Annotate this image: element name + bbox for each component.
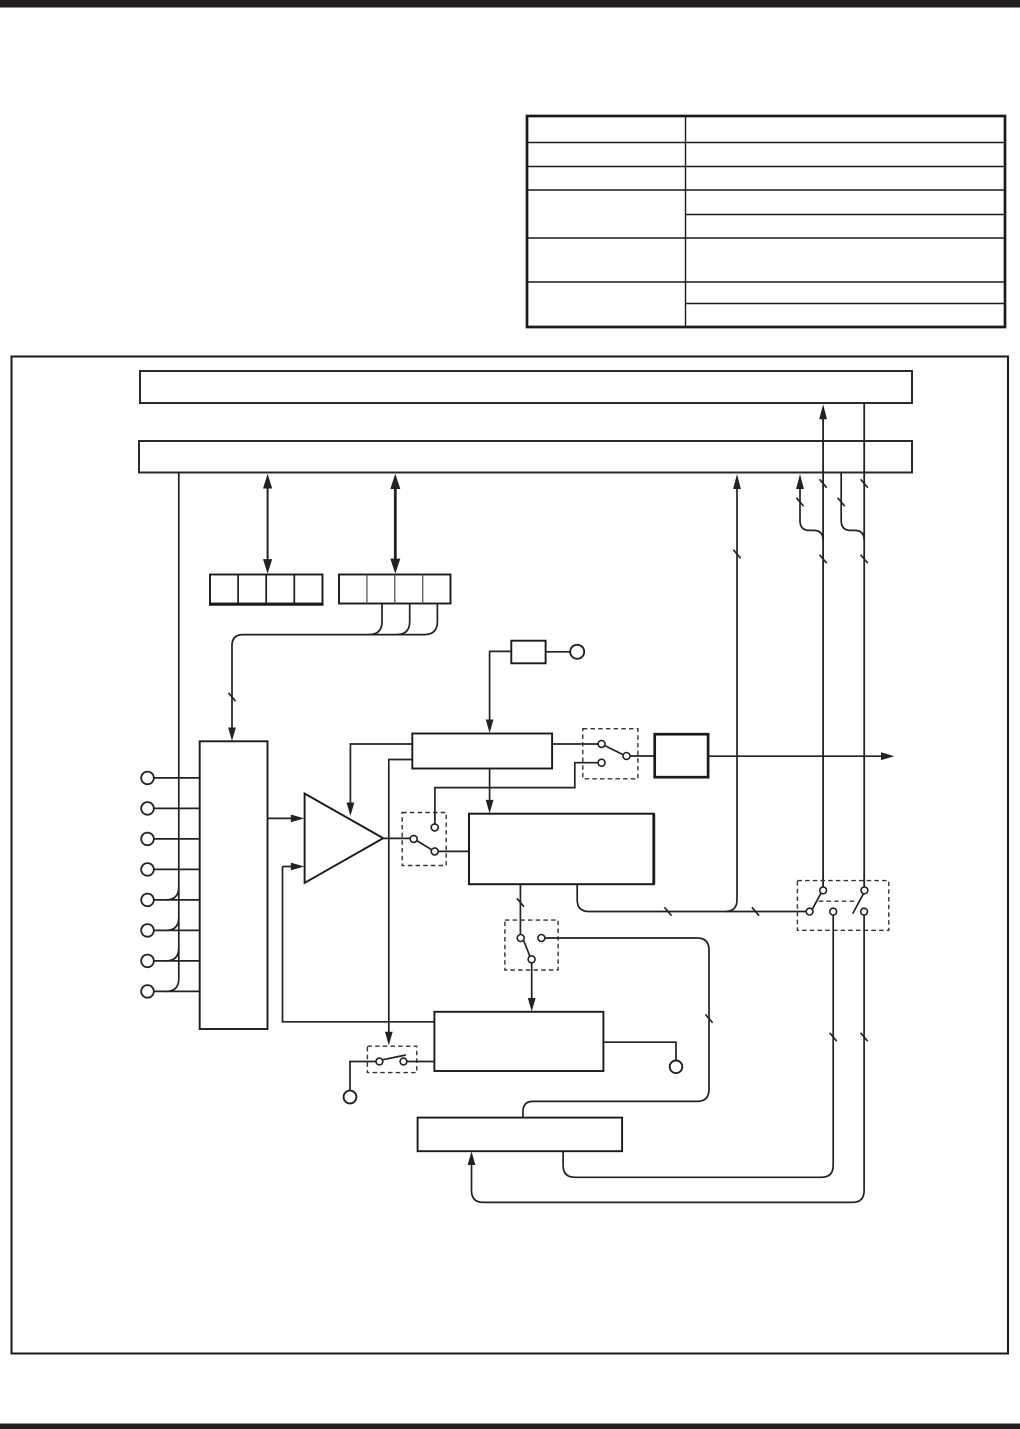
dual switch contacts <box>806 887 868 915</box>
wire: switch to solid box <box>630 755 655 757</box>
dual switch right arm <box>853 894 864 914</box>
register A (left, 4 cells) <box>209 575 324 605</box>
slash mark on mux select bus <box>228 693 235 701</box>
wire: input row 5 <box>154 899 200 901</box>
wire: comparator output to left switch <box>383 837 410 839</box>
dual switch left arm <box>812 894 821 910</box>
wire: enable switch to terminal <box>350 1062 376 1091</box>
small box (clock osc) <box>511 641 545 664</box>
wire: input row 2 <box>154 807 200 809</box>
switch arm <box>605 746 623 755</box>
wire: register B branch curve 1 <box>369 604 382 635</box>
wire: middle box right to terminal <box>603 1042 676 1060</box>
mux block <box>200 741 268 1029</box>
wire+arrow: bottom switch down to middle box <box>531 963 533 999</box>
left switch arm <box>417 841 432 850</box>
arrowhead into wide box top <box>486 720 494 734</box>
wire+arrow: feedback to comparator input 2 <box>283 867 435 1022</box>
wide box (DAC/ladder) <box>412 734 552 769</box>
bottom switch (dashed box) <box>505 920 558 970</box>
wire: input row 7 <box>154 960 200 962</box>
left switch contacts <box>410 824 438 855</box>
input terminal circles <box>141 772 154 998</box>
solid box (comparator latch) <box>655 734 708 777</box>
big box (SAR logic) <box>469 814 654 885</box>
left switch (dashed box) <box>402 813 446 866</box>
diagram border frame <box>12 357 1009 1354</box>
wire: input row 4 <box>154 868 200 870</box>
wire+arrow: dual switch right contact loop up into long box <box>472 915 865 1202</box>
wire+arrow: S-branch up to bar2 (right) <box>800 488 823 540</box>
enable switch (dashed box) <box>367 1046 416 1072</box>
arrowhead into mux top <box>228 728 236 742</box>
wire: wide box bottom to big box <box>489 769 491 801</box>
register B (right, 4 cells) <box>339 575 451 604</box>
dual switch (dashed box, ganged) <box>797 881 888 931</box>
terminal circle right of middle box <box>670 1061 683 1074</box>
wire: input row 3 <box>154 838 200 840</box>
wire: bottom switch right contact long loop to long box <box>523 938 709 1118</box>
terminal circle beside small box <box>570 645 584 659</box>
wire: small box to terminal <box>546 651 571 653</box>
wire: left switch to big box <box>438 850 469 852</box>
arrowhead into big box top <box>486 800 494 814</box>
wire: enable switch to middle box <box>407 1061 435 1063</box>
enable switch contacts <box>376 1058 407 1065</box>
wire tap arc row5 <box>166 887 179 900</box>
wire+arrow: mux to comparator input 1 <box>268 817 293 819</box>
wire: left vertical bus from bar2 <box>166 473 179 992</box>
sample switch (dashed box) <box>583 729 638 779</box>
wire+arrow: long line up to bar1 <box>822 418 824 887</box>
wire: S-branch from bar2 (right pair) <box>841 473 864 540</box>
wire: long line down from bar1 <box>863 404 865 887</box>
wire: input row 8 <box>154 990 200 992</box>
wire: input row 6 <box>154 929 200 931</box>
arrowhead into lower switch <box>385 1032 393 1046</box>
wire: register B branch curve 2 <box>397 604 410 635</box>
long box (output register) <box>418 1118 622 1152</box>
table right-column sub-row lines <box>686 214 1006 216</box>
slash mark <box>733 550 740 558</box>
wire: big box bottom to bottom switch <box>519 884 521 934</box>
wire: big box bottom right run to dual switch <box>577 884 806 911</box>
bus bar 1 (top) <box>140 371 912 403</box>
wire: wide box to sample switch <box>552 743 598 745</box>
table (top right) <box>527 116 1005 327</box>
bottom switch arm <box>524 940 530 956</box>
wire: long box bottom loop to dual switch middle contact <box>563 915 833 1177</box>
enable switch arm <box>382 1055 406 1060</box>
middle box (control logic) <box>434 1012 603 1071</box>
wire: register B output bus to mux <box>232 604 437 729</box>
table column divider <box>685 116 687 327</box>
bottom footer bar <box>0 1424 1020 1429</box>
terminal circle below enable switch <box>344 1091 357 1104</box>
gang coupling dashed line <box>819 900 856 902</box>
slash mark <box>517 898 524 906</box>
wire+arrow: solid box output to right <box>708 755 882 757</box>
wire: wide box to comparator hypotenuse <box>350 744 412 803</box>
wire: wide box long vertical to lower switch <box>389 760 413 1033</box>
bus bar 2 <box>139 441 912 473</box>
wire tap arc row7 <box>166 948 179 961</box>
wire tap arc row6 <box>166 917 179 930</box>
sample switch contacts <box>598 740 630 766</box>
bottom switch contacts <box>517 935 545 963</box>
table row lines <box>527 142 1005 144</box>
wire: small box to wide box <box>490 651 512 720</box>
double arrow bar2 to register B <box>390 474 400 574</box>
double arrow bar2 to register A <box>263 474 272 574</box>
wire: input row 1 <box>154 777 200 779</box>
comparator triangle <box>305 794 384 883</box>
wire+arrow: up line to bar2 (left) <box>725 488 737 912</box>
top header bar <box>0 0 1020 8</box>
arrowhead onto hypotenuse <box>347 803 355 817</box>
wire: switch lower tap to left switch <box>435 763 598 824</box>
slash marks on horizontal run <box>664 907 671 915</box>
slash mark on loop vertical <box>705 1014 712 1022</box>
